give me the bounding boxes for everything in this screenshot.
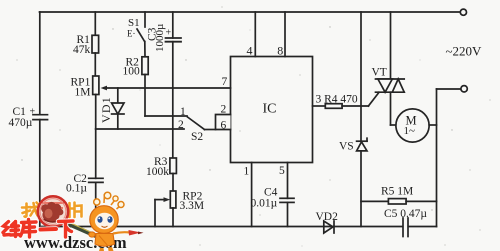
- switch S1: [127, 12, 145, 57]
- op-amp IC U1 box: [231, 57, 313, 163]
- watermark dzsc.com logo: [3, 192, 144, 251]
- pin 7 wire to RP1 wiper: [104, 76, 231, 88]
- svg-text:VD1: VD1: [99, 96, 113, 123]
- svg-text:5: 5: [279, 165, 285, 177]
- motor M: [391, 109, 437, 142]
- wire left rail upper: [39, 12, 41, 115]
- wire S2 contact-2 line: [96, 128, 184, 130]
- red text weikuyixia: [3, 220, 73, 238]
- svg-text:1M: 1M: [75, 86, 91, 98]
- svg-text:IC: IC: [263, 102, 277, 117]
- switch S2 blade: [178, 106, 216, 143]
- resistor R4 470 on pin 3: [313, 92, 380, 108]
- wire top supply rail: [40, 11, 461, 13]
- wire C2 to bottom rail: [95, 182, 97, 226]
- svg-text:1~: 1~: [404, 125, 416, 137]
- svg-text:0.01µ: 0.01µ: [251, 197, 278, 209]
- svg-text:~220V: ~220V: [446, 44, 483, 59]
- resistor R2 100: [123, 56, 149, 116]
- potentiometer RP1 1M: [71, 76, 108, 98]
- pin 1 wire: [244, 163, 252, 227]
- capacitor C5 0.47µ: [384, 208, 427, 237]
- svg-text:2: 2: [178, 119, 184, 131]
- svg-text:100k: 100k: [146, 166, 169, 178]
- svg-text:R5 1M: R5 1M: [381, 186, 413, 198]
- pin 2/6 stub: [216, 104, 231, 132]
- svg-text:6: 6: [221, 119, 227, 131]
- wire left rail lower: [39, 120, 41, 227]
- resistor R1 47k: [73, 12, 99, 76]
- wire right vertical: [436, 89, 438, 227]
- svg-text:+: +: [30, 107, 36, 118]
- svg-text:8: 8: [277, 43, 283, 57]
- triac VT: [372, 12, 405, 125]
- wire S2 contact-1 line: [145, 115, 187, 117]
- capacitor C4 0.01µ: [251, 187, 295, 227]
- diode VS trigger: [339, 12, 367, 227]
- diode VD1: [99, 88, 124, 129]
- svg-text:+: +: [166, 28, 172, 39]
- pin 5 wire: [279, 163, 288, 199]
- diode VD2: [316, 211, 339, 233]
- capacitor C2 0.1µ: [66, 173, 103, 195]
- wire junction down to C2: [95, 129, 97, 178]
- potentiometer RP2 3.3M: [155, 191, 204, 227]
- gold char zhao: [22, 203, 39, 217]
- svg-text:1: 1: [244, 166, 250, 178]
- capacitor C1 470µ electrolytic: [9, 106, 48, 129]
- resistor R5 1M: [361, 186, 437, 204]
- wire bottom rail (right of C5): [408, 226, 436, 228]
- terminal upper (mains): [460, 9, 466, 15]
- pin 4 wire: [247, 12, 256, 57]
- gold char pian: [70, 203, 82, 218]
- svg-text:2: 2: [221, 104, 227, 116]
- svg-text:E·: E·: [127, 29, 136, 39]
- resistor R3 100k: [146, 156, 176, 191]
- svg-text:3 R4 470: 3 R4 470: [316, 93, 358, 105]
- url text www.dzsc.com: [24, 233, 127, 251]
- svg-text:470µ: 470µ: [9, 117, 33, 129]
- node ~220V label: [446, 44, 483, 59]
- mascot robot: [89, 192, 144, 251]
- svg-text:VS: VS: [339, 140, 354, 152]
- svg-text:VT: VT: [372, 67, 387, 79]
- wire RP1 bottom down to junction: [95, 95, 97, 130]
- svg-text:1000µ: 1000µ: [154, 24, 166, 52]
- capacitor C3 1000µ electrolytic: [147, 12, 182, 158]
- svg-text:7: 7: [222, 76, 228, 88]
- svg-text:C5 0.47µ: C5 0.47µ: [384, 208, 427, 220]
- svg-text:3.3M: 3.3M: [180, 200, 205, 212]
- svg-text:VD2: VD2: [316, 211, 339, 223]
- svg-text:0.1µ: 0.1µ: [66, 183, 87, 195]
- wire bottom rail (left of C5): [40, 226, 403, 228]
- svg-text:1: 1: [180, 106, 186, 118]
- magnifier circle: [38, 196, 97, 236]
- terminal lower (mains): [437, 86, 468, 92]
- svg-text:S1: S1: [128, 17, 140, 29]
- svg-text:S2: S2: [191, 131, 203, 143]
- svg-text:47k: 47k: [73, 44, 91, 56]
- pin 8 wire: [277, 12, 285, 57]
- svg-text:100: 100: [123, 65, 141, 77]
- svg-text:4: 4: [247, 43, 253, 57]
